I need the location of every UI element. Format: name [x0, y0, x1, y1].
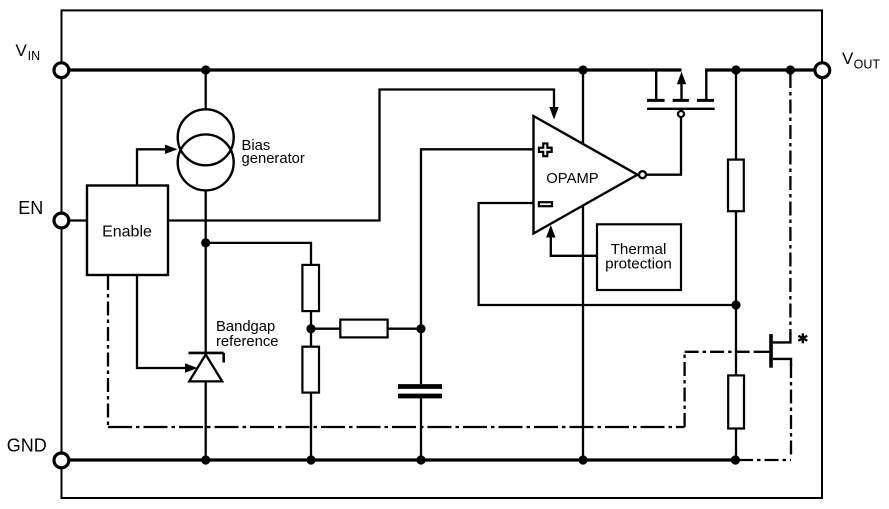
svg-text:Enable: Enable	[102, 224, 152, 241]
svg-text:protection: protection	[605, 256, 672, 273]
svg-text:IN: IN	[28, 49, 40, 63]
svg-text:EN: EN	[18, 198, 43, 218]
svg-text:V: V	[16, 41, 28, 60]
svg-text:OPAMP: OPAMP	[546, 171, 598, 187]
svg-text:GND: GND	[7, 436, 47, 456]
svg-text:Bandgap: Bandgap	[216, 319, 275, 335]
svg-text:reference: reference	[216, 334, 279, 350]
svg-text:generator: generator	[242, 151, 305, 167]
svg-text:V: V	[842, 49, 854, 68]
svg-text:OUT: OUT	[854, 58, 881, 72]
